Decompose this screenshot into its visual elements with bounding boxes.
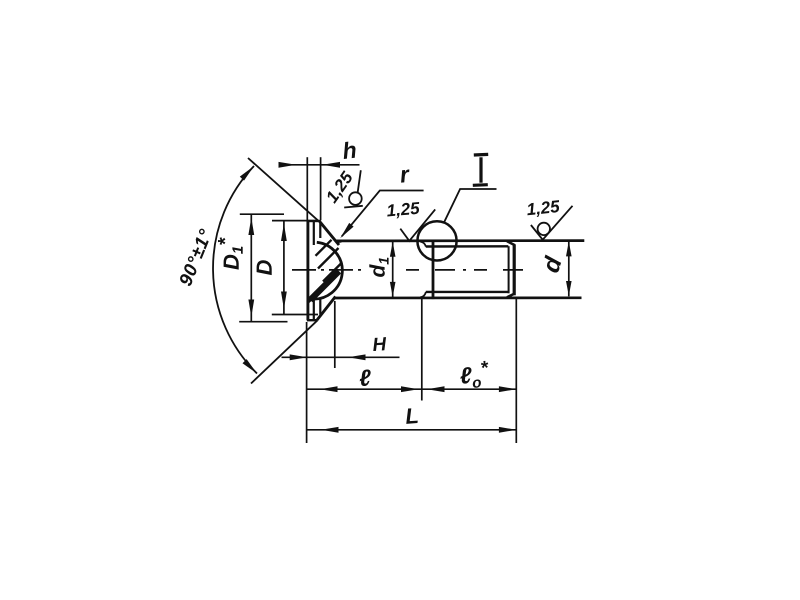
90 degree dimension arc	[213, 166, 257, 374]
middle extension line (l / l0 divider)	[421, 299, 423, 401]
head inner line v3	[319, 222, 321, 315]
detail I leader line	[444, 189, 497, 223]
head top rim edge	[307, 220, 321, 222]
arc arrow bottom	[243, 359, 258, 373]
fillet r at head-shank junction	[334, 239, 341, 241]
slot hatch line 2	[318, 248, 339, 269]
slot section outline (half disc)	[311, 242, 342, 299]
shank top outline / d extension	[337, 239, 585, 242]
detail view circle I	[417, 221, 456, 260]
detail label I	[473, 154, 488, 185]
screw end face	[513, 244, 516, 295]
slot hatch thick band	[310, 271, 339, 300]
thread minor diameter top line	[426, 245, 509, 248]
cone bottom construction line	[251, 320, 318, 383]
dimension H	[282, 337, 400, 360]
dimension l0 (thread length)	[427, 361, 516, 392]
left extension line below head	[306, 322, 308, 443]
cone top construction line	[248, 158, 320, 222]
dimension h	[279, 141, 360, 220]
right extension line below screw end	[515, 297, 517, 443]
screw head left face	[306, 221, 309, 320]
head cone bottom edge	[317, 297, 336, 321]
leader r (fillet radius)	[340, 169, 423, 238]
roughness mark 1,25 at thread runout	[386, 202, 435, 241]
roughness mark 1,25 on thread surface	[526, 200, 572, 240]
head inner line v2	[313, 221, 315, 320]
screw axis centerline	[292, 269, 527, 271]
label 90 deg	[178, 228, 212, 287]
thread end vertical line	[432, 241, 435, 299]
head cone top edge	[320, 221, 339, 245]
slot hatch line 1	[316, 240, 332, 256]
dimension D	[257, 221, 318, 315]
roughness mark 1,25 on cone face	[325, 170, 363, 208]
thread runout bottom curve	[420, 292, 426, 297]
dimension d	[541, 241, 572, 296]
end chamfer top	[507, 241, 515, 245]
head bottom rim edge	[307, 319, 317, 321]
dimension d1	[369, 242, 395, 298]
thread minor diameter bottom line	[426, 291, 509, 293]
screw end inner line	[508, 246, 510, 293]
dimension l (shank length)	[307, 369, 516, 392]
shank bottom outline / d extension	[334, 296, 582, 299]
arc arrow top	[240, 166, 254, 181]
dimension D1	[218, 214, 288, 322]
slot hatch line 5	[308, 291, 321, 303]
thread runout top curve	[420, 242, 426, 247]
end chamfer bottom	[507, 294, 515, 298]
H right extension line	[334, 301, 336, 368]
dimension L (total length)	[307, 408, 516, 433]
slot hatch line 3	[323, 263, 342, 282]
